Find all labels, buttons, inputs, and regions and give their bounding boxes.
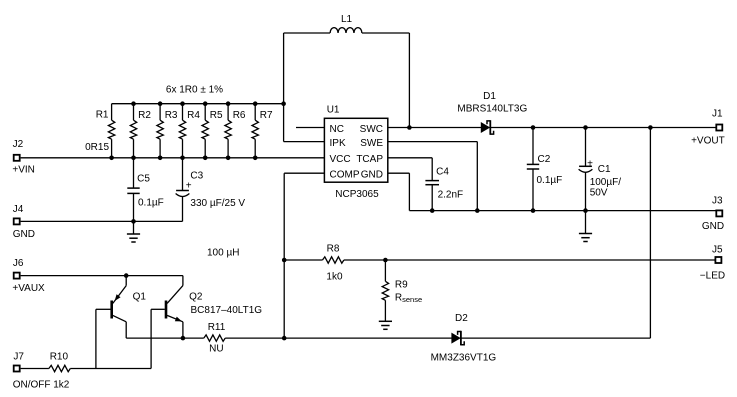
svg-text:J4: J4 [13,204,24,215]
svg-text:TCAP: TCAP [356,154,383,165]
svg-text:U1: U1 [327,105,340,116]
junction +VOUT vertical [648,125,653,130]
svg-text:+VOUT: +VOUT [691,136,725,147]
svg-text:D2: D2 [455,313,468,324]
capacitor C1 (polarized) [585,128,587,167]
svg-text:GND: GND [13,229,35,240]
wire: L1 loop top [284,32,331,34]
svg-text:R8: R8 [327,244,340,255]
resistor R2 [133,104,135,121]
wire: GND pin to gnd rail [388,172,410,174]
wire: gnd stem C5 [133,221,135,234]
svg-text:J7: J7 [13,352,24,363]
svg-text:R1: R1 [96,109,109,120]
junction SWE / gnd rail [475,208,480,213]
svg-text:50V: 50V [590,188,608,199]
junction C5 / gnd line [131,219,136,224]
svg-text:+VIN: +VIN [12,164,35,175]
terminal J1 [716,125,722,131]
junction COMP vertical / bottom line [282,336,287,341]
wire: COMP node to J5 (-LED) line [284,259,322,261]
wire: J7 line [21,368,49,370]
transistor Q1 [110,301,113,319]
svg-text:330 µF/25 V: 330 µF/25 V [190,198,245,209]
svg-text:C4: C4 [436,166,449,177]
svg-text:SWE: SWE [360,138,383,149]
svg-text:+: + [186,180,192,191]
svg-text:NU: NU [209,344,223,355]
svg-text:C5: C5 [137,174,150,185]
wire: R10 to Q2 base [70,368,151,370]
inductor L1 [330,28,362,33]
svg-text:+: + [587,158,593,169]
ground at C5 [127,233,140,235]
ground at C1 [579,233,592,235]
svg-text:C1: C1 [598,164,611,175]
wire: gnd stem C1 [585,211,587,234]
resistor R5 [204,104,206,121]
junction C2 bottom [531,208,536,213]
svg-text:SWC: SWC [360,124,383,135]
wire: COMP pin + vertical [284,172,324,174]
terminal J3 [716,210,722,216]
op IC U1 NCP3065 [324,118,387,182]
svg-text:R2: R2 [138,110,151,121]
svg-text:2.2nF: 2.2nF [438,190,464,201]
junction COMP vertical / R8 [282,258,287,263]
terminal J5 [715,257,721,263]
junction Q2 emitter / R11 line [181,336,186,341]
svg-text:GND: GND [702,221,724,232]
svg-text:C3: C3 [190,170,203,181]
svg-text:MM3Z36VT1G: MM3Z36VT1G [431,353,497,364]
terminal J4 [14,218,20,224]
svg-text:1k0: 1k0 [326,271,343,282]
svg-text:R5: R5 [210,110,223,121]
ground at R9 [379,320,392,322]
junction rail top / left vertical [281,101,286,106]
svg-text:COMP: COMP [330,170,360,181]
wire: NC stub [296,127,324,129]
wire: Q2 base vertical [150,309,152,368]
svg-text:D1: D1 [483,91,496,102]
resistor R7 [254,104,256,121]
svg-text:MBRS140LT3G: MBRS140LT3G [457,104,527,115]
wire: TCAP pin [388,157,432,159]
svg-text:Q1: Q1 [133,292,147,303]
wire: +VIN rail [21,157,325,159]
terminal J7 [14,366,20,372]
capacitor C2 [532,128,534,165]
wire: +VAUX line [21,275,183,277]
svg-text:R10: R10 [50,352,69,363]
junction C1 top [583,125,588,130]
junction R8 / R9 [383,258,388,263]
diode D1 MBRS140LT3G [481,123,489,133]
resistor R4 [182,104,184,121]
wire: +VOUT vertical down to D2 line [649,128,651,339]
junction C1 bottom [583,208,588,213]
svg-text:6x 1R0 ± 1%: 6x 1R0 ± 1% [166,84,223,95]
svg-text:J3: J3 [712,196,723,207]
resistor R3 [159,104,161,121]
wire: SWE pin to gnd rail [388,141,478,143]
svg-text:R3: R3 [165,110,178,121]
capacitor C3 (polarized) [182,158,184,191]
svg-text:NC: NC [330,124,344,135]
svg-text:J6: J6 [13,258,24,269]
svg-text:0.1µF: 0.1µF [537,175,563,186]
svg-text:R9: R9 [395,279,408,290]
wire: L1 right vertical to SWC [408,33,410,128]
capacitor C4 [431,158,433,181]
resistor R9 Rsense [384,260,386,281]
wire: bottom line Q1-collector to D2 to +VOUT [126,337,204,339]
svg-text:J1: J1 [712,109,723,120]
svg-text:0R15: 0R15 [85,142,109,153]
resistor R11 [204,335,225,341]
svg-text:100µF/: 100µF/ [590,177,622,188]
junction C4 / gnd rail [430,208,435,213]
svg-text:R7: R7 [260,110,273,121]
diode D2 MM3Z36VT1G [452,333,460,343]
resistor R1 [111,104,113,121]
svg-text:BC817–40LT1G: BC817–40LT1G [191,305,263,316]
svg-text:100 µH: 100 µH [207,248,239,259]
terminal J6 [14,273,20,279]
terminal J2 [14,155,20,161]
junction Q1 emitter / +VAUX [124,273,129,278]
resistor R10 [49,365,70,371]
svg-text:C2: C2 [538,154,551,165]
svg-text:R11: R11 [208,322,226,333]
svg-text:J2: J2 [13,139,24,150]
svg-text:IPK: IPK [330,138,346,149]
svg-text:−LED: −LED [700,271,725,282]
wire: SWC / output line to J1 [388,127,482,129]
svg-text:R4: R4 [187,110,200,121]
wire: IPK pin [284,141,325,143]
svg-text:R6: R6 [233,110,246,121]
svg-text:+VAUX: +VAUX [12,283,45,294]
resistor R6 [227,104,229,121]
svg-text:J5: J5 [712,244,723,255]
svg-text:GND: GND [361,170,383,181]
wire: L1 left vertical to IPK [283,33,285,142]
junction SWC / L1 [407,125,412,130]
svg-text:L1: L1 [341,14,353,25]
junction C2 top [531,125,536,130]
capacitor C5 [133,158,135,188]
svg-text:NCP3065: NCP3065 [335,189,379,200]
transistor Q2 [165,301,168,319]
svg-text:ON/OFF 1k2: ON/OFF 1k2 [13,379,70,390]
svg-text:Q2: Q2 [189,292,203,303]
wire: Q1 base vertical [95,309,97,368]
resistor R8 [323,257,344,263]
wire: J4 GND line [21,220,183,222]
wire: resistor bank top rail [112,103,284,105]
wire: right gnd rail to J3 [409,210,716,212]
svg-text:0.1µF: 0.1µF [138,198,164,209]
svg-text:VCC: VCC [330,154,351,165]
